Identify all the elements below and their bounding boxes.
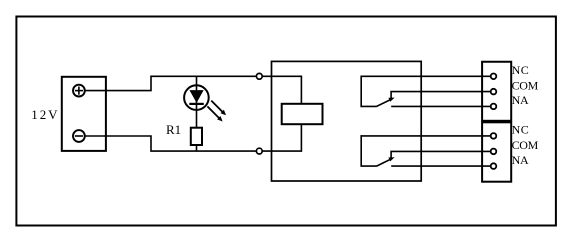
- relay coil: [282, 104, 323, 124]
- pin NC of J3: [491, 133, 497, 139]
- relay module U1 box: [272, 61, 422, 181]
- relay contact SW1 NC line: [361, 75, 490, 77]
- pin NA of J2: [491, 104, 497, 110]
- svg-text:NC: NC: [512, 123, 530, 137]
- relay contact SW2 COM stub: [391, 151, 490, 159]
- pin - of J1: [73, 130, 85, 142]
- pin COM of J3: [491, 149, 497, 155]
- svg-text:NA: NA: [512, 153, 529, 167]
- svg-text:R1: R1: [166, 122, 181, 137]
- relay contact SW2 NA line: [391, 165, 490, 167]
- terminal block J1 (12V supply): [62, 77, 106, 151]
- LED light arrow 2: [207, 106, 222, 121]
- relay contact SW2 pivot bracket: [361, 135, 377, 166]
- terminal block J2 (relay 1 output): [482, 62, 511, 121]
- module input pin node (bottom): [256, 148, 262, 154]
- relay contact SW1 pivot bracket: [361, 76, 377, 107]
- wire LED branch from VCC rail down to GND rail: [196, 76, 198, 151]
- pin COM of J2: [491, 89, 497, 95]
- LED D1: [184, 85, 209, 110]
- relay contact SW2 NC line: [361, 135, 490, 137]
- resistor R1: [191, 128, 202, 145]
- wire from -12V terminal to relay coil bottom (net GND): [85, 124, 302, 151]
- svg-text:COM: COM: [512, 78, 539, 92]
- pin NA of J3: [491, 163, 497, 169]
- wire from +12V terminal to relay coil top (net VCC): [85, 76, 302, 104]
- LED light arrow 1: [211, 101, 226, 116]
- svg-text:12V: 12V: [31, 107, 59, 122]
- relay contact SW1 lever: [377, 100, 391, 107]
- svg-text:NA: NA: [512, 93, 529, 107]
- svg-text:NC: NC: [512, 63, 530, 77]
- pin NC of J2: [491, 74, 497, 80]
- pin + of J1: [73, 85, 85, 97]
- module input pin node (top): [256, 73, 262, 79]
- relay contact SW1 COM stub: [391, 92, 490, 100]
- relay contact SW2 lever: [377, 159, 391, 166]
- svg-text:COM: COM: [512, 138, 539, 152]
- relay contact SW1 NA line: [391, 105, 490, 107]
- terminal block J3 (relay 2 output): [482, 122, 511, 181]
